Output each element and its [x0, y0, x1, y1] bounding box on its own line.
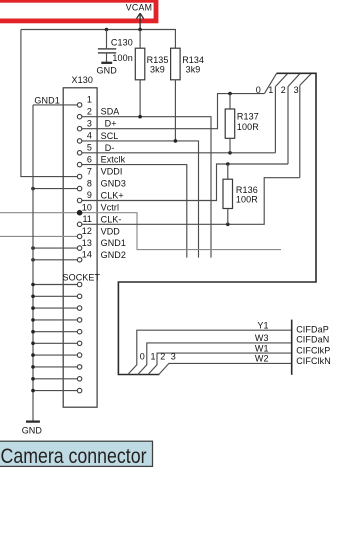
- socket contact 9: [33, 378, 77, 380]
- socket contact 5: [33, 331, 77, 333]
- capacitor C130: [106, 30, 108, 49]
- node CLK--R136 junction: [226, 223, 230, 227]
- node GND3 junction: [31, 187, 35, 191]
- wire Extclk from pin 6 to dangling drop: [82, 165, 187, 258]
- svg-text:10: 10: [82, 202, 92, 212]
- node pin13 junction: [31, 246, 35, 250]
- svg-text:100n: 100n: [112, 53, 132, 63]
- node D--R137 junction: [228, 151, 232, 155]
- pin 9 of X130: [77, 198, 82, 203]
- node D+-R137 junction: [228, 92, 232, 96]
- bus entry 2 top: [288, 73, 300, 86]
- red highlight box around VCAM power net: [0, 0, 156, 21]
- svg-text:3k9: 3k9: [186, 64, 201, 74]
- svg-text:CIFDaP: CIFDaP: [296, 325, 329, 335]
- pin 6 of X130: [77, 162, 82, 167]
- svg-text:Vctrl: Vctrl: [101, 203, 120, 213]
- svg-text:R137: R137: [237, 112, 259, 122]
- svg-text:3: 3: [87, 118, 92, 128]
- svg-text:2: 2: [281, 85, 286, 95]
- socket contact 10: [33, 390, 77, 392]
- svg-text:CLK+: CLK+: [101, 191, 124, 201]
- socket contact 2: [33, 295, 77, 297]
- svg-text:0: 0: [140, 351, 145, 361]
- svg-text:4: 4: [87, 131, 92, 141]
- svg-text:7: 7: [87, 166, 92, 176]
- pin 3 of X130: [77, 126, 82, 131]
- pin 4 of X130: [77, 139, 82, 144]
- node VCAM-R135 junction: [138, 28, 142, 32]
- bus entry 1 bottom: [138, 343, 292, 375]
- socket contact 6: [33, 342, 77, 344]
- ground symbol bottom left: [26, 420, 40, 422]
- svg-text:2: 2: [160, 351, 165, 361]
- off-page connector bar: [291, 320, 293, 375]
- svg-text:GND: GND: [22, 425, 43, 435]
- wire SDA from pin 2 to dangling drop: [82, 117, 211, 258]
- pin 7 of X130: [77, 174, 82, 179]
- wire GND2 pin 14 to GND rail: [33, 259, 77, 261]
- resistor R136: [227, 164, 229, 179]
- bus entry 2 bottom: [148, 353, 292, 374]
- bus entry 1 top: [275, 73, 287, 86]
- connector X130 body: [63, 88, 97, 407]
- svg-text:8: 8: [87, 178, 92, 188]
- svg-text:14: 14: [82, 250, 92, 260]
- socket contact 3: [33, 307, 77, 309]
- svg-text:GND2: GND2: [101, 250, 126, 260]
- svg-text:SDA: SDA: [101, 107, 120, 117]
- svg-text:13: 13: [82, 238, 92, 248]
- node CLK+-R136 junction: [226, 162, 230, 166]
- svg-text:Extclk: Extclk: [101, 155, 126, 165]
- ground under C130: [101, 62, 112, 64]
- wire VDD from left edge to pin 12: [0, 235, 77, 237]
- wire GND rail left: [32, 105, 34, 421]
- bus entry 3 riser: [299, 85, 301, 177]
- svg-text:VCAM: VCAM: [126, 2, 153, 12]
- wire SCL from pin 4 to dangling drop: [82, 141, 199, 258]
- svg-text:CIFClkP: CIFClkP: [296, 345, 330, 355]
- node pin14 junction: [31, 258, 35, 262]
- wire GND1 pin 13 to GND rail: [33, 247, 77, 249]
- svg-text:D-: D-: [105, 143, 115, 153]
- svg-text:SCL: SCL: [101, 131, 119, 141]
- svg-text:12: 12: [82, 226, 92, 236]
- resistor R137: [229, 94, 231, 109]
- svg-text:C130: C130: [111, 38, 133, 48]
- svg-text:1: 1: [151, 351, 156, 361]
- power symbol VCAM arrow: [137, 13, 144, 29]
- svg-text:Y1: Y1: [257, 320, 268, 330]
- pin 5 of X130: [77, 151, 82, 156]
- svg-text:R136: R136: [236, 185, 258, 195]
- resistor R134: [174, 30, 176, 49]
- svg-text:3: 3: [294, 85, 299, 95]
- svg-text:SOCKET: SOCKET: [63, 273, 101, 283]
- svg-text:2: 2: [87, 106, 92, 116]
- wire Vctrl from left edge through pin 10 to dangling end: [0, 213, 281, 250]
- svg-text:CIFDaN: CIFDaN: [296, 335, 329, 345]
- bus entry 3 bottom: [159, 363, 292, 374]
- svg-text:11: 11: [82, 214, 92, 224]
- pin 13 of X130: [77, 246, 82, 251]
- node SCL-R134 junction: [174, 139, 178, 143]
- wire VCAM rail: [21, 29, 176, 31]
- svg-text:GND1: GND1: [101, 238, 126, 248]
- svg-text:5: 5: [87, 143, 92, 153]
- svg-text:3k9: 3k9: [150, 64, 165, 74]
- pin 2 of X130: [77, 114, 82, 119]
- bus entry 0 top: [264, 73, 276, 93]
- svg-text:VDD: VDD: [101, 226, 121, 236]
- pin 12 of X130: [77, 234, 82, 239]
- wire CLK+ from pin 9 to bus entry 2: [82, 164, 288, 201]
- bus entry 2 riser: [287, 87, 289, 164]
- svg-text:W1: W1: [255, 343, 269, 353]
- svg-text:100R: 100R: [237, 122, 259, 132]
- wire VCAM to pin 7 VDDI: [21, 30, 78, 177]
- svg-text:1: 1: [87, 95, 92, 105]
- pin 1 of X130: [77, 103, 82, 108]
- wire GND3 pin 8 to GND rail: [33, 188, 77, 190]
- svg-text:1: 1: [268, 85, 273, 95]
- svg-text:CIFClkN: CIFClkN: [296, 356, 331, 366]
- resistor R135: [139, 30, 141, 49]
- pin 10 of X130: [77, 210, 82, 215]
- svg-text:X130: X130: [72, 75, 93, 85]
- wire D- from pin 5 to bus entry 1: [82, 152, 275, 154]
- bus CIF main run: [118, 73, 316, 374]
- svg-text:W2: W2: [255, 354, 269, 364]
- bus entry 1 riser: [274, 87, 276, 153]
- svg-text:GND3: GND3: [101, 179, 126, 189]
- socket contact 1: [33, 284, 77, 286]
- svg-text:100R: 100R: [236, 195, 258, 205]
- node VCAM-C130 junction: [105, 28, 109, 32]
- wire CLK- from pin 11 to bus entry 3: [82, 178, 300, 225]
- svg-text:VDDI: VDDI: [101, 167, 123, 177]
- svg-text:W3: W3: [255, 333, 269, 343]
- svg-text:CLK-: CLK-: [101, 214, 122, 224]
- socket contact 7: [33, 354, 77, 356]
- svg-text:0: 0: [256, 85, 261, 95]
- bus entry 0 bottom: [128, 330, 292, 374]
- svg-text:9: 9: [87, 190, 92, 200]
- svg-text:D+: D+: [105, 119, 117, 129]
- socket contact 8: [33, 366, 77, 368]
- socket contact 4: [33, 319, 77, 321]
- bus entry 3 top: [300, 73, 312, 85]
- wire pin 1 to GND rail: [33, 104, 77, 106]
- pin 8 of X130: [77, 186, 82, 191]
- svg-text:Camera connector: Camera connector: [1, 445, 147, 468]
- pin 11 of X130: [77, 222, 82, 227]
- svg-text:GND: GND: [97, 65, 118, 75]
- svg-text:GND1: GND1: [34, 96, 59, 106]
- pin 14 of X130: [77, 258, 82, 263]
- title box Camera connector: [0, 441, 153, 466]
- node SDA-R135 junction: [138, 115, 142, 119]
- svg-text:3: 3: [171, 351, 176, 361]
- svg-text:6: 6: [87, 154, 92, 164]
- wire D+ from pin 3 to bus entry 0: [82, 94, 264, 129]
